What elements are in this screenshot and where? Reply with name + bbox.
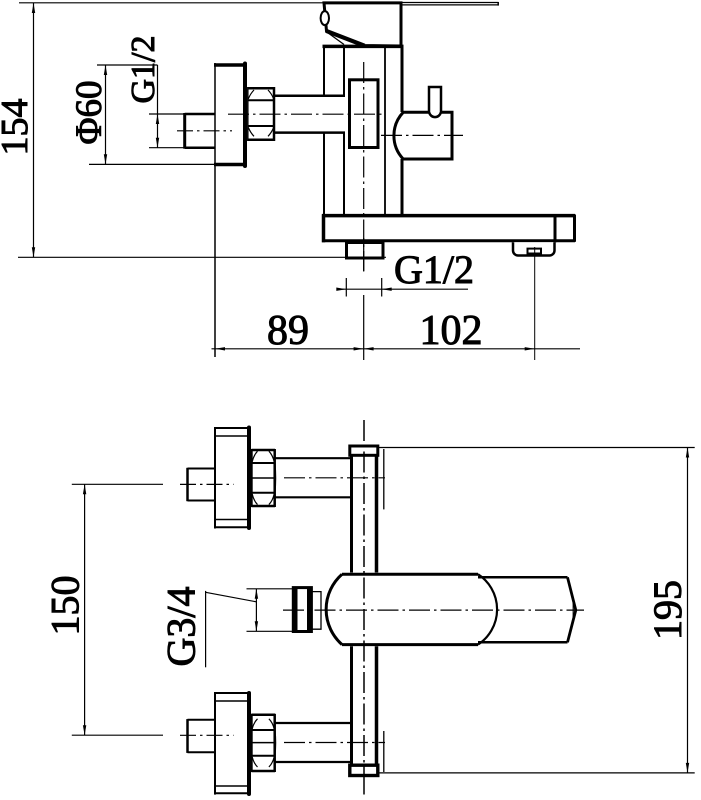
shower outlet fitting G1/2: [347, 243, 384, 259]
spout body right edge: [554, 214, 557, 242]
G3/4 neck: [311, 592, 321, 630]
dimension 150 arrow bottom: [83, 725, 86, 735]
body junction arc: [478, 574, 497, 644]
handle wedge inner edge: [328, 33, 345, 45]
bottom inlet hex nut: [251, 714, 276, 772]
capsule centerline: [283, 609, 584, 611]
aerator centerline: [534, 247, 536, 360]
dimension 150 ext top: [72, 483, 163, 485]
body bar top cap: [350, 446, 378, 455]
svg-text:102: 102: [420, 308, 483, 354]
dimension 154 arrow top: [32, 3, 35, 13]
dimension G1/2 wall thread vertical line: [157, 65, 159, 148]
G3/4 leader: [206, 592, 257, 602]
dimension G1/2 outlet line: [337, 288, 469, 290]
dimension 195 line: [687, 448, 689, 773]
cartridge box: [350, 80, 379, 148]
dimension 150 line: [84, 484, 86, 735]
dimension 150 arrow top: [83, 484, 86, 494]
eccentric block centerline: [177, 130, 232, 132]
body bar right edge: [375, 455, 379, 765]
spout end cap right edge: [573, 215, 576, 242]
dimension G1/2 arrow up: [156, 114, 159, 124]
G3/4 collar: [293, 588, 311, 632]
spout bottom edge: [322, 239, 575, 242]
dimension 102 arrow right: [525, 347, 535, 350]
dimension Phi60 line: [105, 65, 107, 164]
diverter body: [394, 112, 452, 159]
dimension 89 arrow left: [215, 347, 225, 350]
bottom inlet wall plate: [215, 692, 249, 795]
dimension G1/2 arrow down: [156, 138, 159, 148]
dimension 195 arrow bottom: [686, 763, 689, 773]
diverter centerline: [381, 134, 463, 136]
body column right silhouette: [401, 48, 404, 215]
eccentric wall connector block: [185, 113, 215, 149]
dimension Phi60 arrow bottom: [104, 154, 107, 164]
inlet pipe top: [275, 96, 346, 133]
wall plate bottom edge: [214, 163, 247, 167]
top inlet square end: [188, 468, 216, 501]
top inlet pipe centerline: [284, 477, 385, 479]
wall base line: [18, 256, 386, 258]
handle pivot oval: [321, 11, 329, 25]
dimension G3/4 arrows: [255, 589, 258, 632]
dimension G1/2 outlet arrows: [336, 288, 391, 291]
spout tube bottom edge: [478, 641, 568, 644]
bottom inlet square centerline: [180, 734, 234, 736]
body bar far edge upper: [383, 449, 385, 509]
svg-text:89: 89: [267, 308, 309, 354]
svg-text:G1/2: G1/2: [394, 247, 474, 292]
bottom inlet square end: [188, 719, 216, 753]
body capsule top edge: [342, 573, 478, 576]
svg-text:150: 150: [43, 576, 88, 636]
wall plate front face (right edge): [243, 64, 247, 167]
svg-text:Φ60: Φ60: [69, 80, 110, 144]
spout tube top edge: [478, 576, 568, 579]
spout apex tick: [572, 603, 574, 620]
body capsule bottom edge: [342, 643, 478, 646]
svg-text:154: 154: [0, 99, 36, 156]
body bar far edge lower: [383, 731, 385, 772]
svg-text:G3/4: G3/4: [159, 587, 204, 667]
body column right face line: [384, 48, 386, 215]
body bar bottom cap: [350, 765, 378, 775]
bottom inlet pipe: [275, 723, 351, 762]
dimension G3/4 ext lines: [247, 589, 294, 632]
dimension 154 arrow bottom: [32, 247, 35, 257]
top inlet hex nut: [251, 449, 276, 507]
body column left face line: [343, 48, 345, 215]
inlet pipe centerline: [228, 113, 385, 115]
centerline solid through fitting: [363, 238, 365, 272]
body top edge: [323, 45, 404, 49]
spout left end: [322, 214, 326, 242]
body column left silhouette: [323, 48, 325, 215]
dimension 195 arrow top: [686, 448, 689, 458]
top inlet wall plate: [215, 427, 249, 529]
wall plate left edge + 89 extension: [214, 63, 216, 357]
dimension 89/102 line: [212, 348, 581, 350]
aerator fitting: [513, 242, 555, 255]
dimension G1/2 outlet ext lines: [346, 278, 381, 297]
G3/4 underline: [205, 591, 207, 667]
handle base wedge: [324, 3, 401, 46]
dimension 195 ext bottom: [378, 772, 695, 774]
bottom inlet pipe centerline: [284, 742, 385, 744]
dimension G3/4 line: [255, 589, 257, 632]
svg-text:195: 195: [645, 580, 690, 640]
body bar left edge: [350, 455, 353, 765]
spout top edge: [322, 214, 575, 218]
dimension Phi60 ext bottom (plate bottom extended): [89, 163, 215, 165]
hex nut top: [248, 87, 275, 141]
spout cone end: [568, 577, 576, 642]
dimension 154 extension line top: [19, 2, 323, 4]
dimension arrows middle: [354, 347, 374, 350]
dimension Phi60 ext top: [97, 64, 158, 66]
handle lever bar: [401, 2, 499, 6]
svg-text:G1/2: G1/2: [125, 36, 162, 104]
dimension G1/2 ext top: [149, 113, 212, 115]
top inlet pipe: [275, 458, 351, 497]
body vertical centerline: [363, 62, 365, 271]
diverter knob: [429, 87, 441, 117]
centerline extension to dim line: [363, 295, 365, 360]
body bar centerline: [363, 420, 365, 776]
dimension G1/2 ext bottom: [149, 147, 212, 149]
top inlet square centerline: [180, 483, 234, 485]
dimension Phi60 arrow top: [104, 65, 107, 75]
wall plate top edge: [214, 63, 247, 67]
dimension 195 ext top: [378, 447, 695, 449]
body capsule left arc: [326, 574, 342, 644]
dimension 154 line: [33, 3, 35, 257]
dimension 150 ext bottom: [72, 734, 163, 736]
